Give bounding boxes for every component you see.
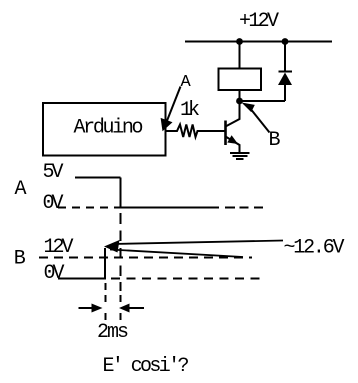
svg-text:0V: 0V (43, 192, 64, 215)
svg-text:+12V: +12V (239, 10, 279, 33)
svg-text:5V: 5V (43, 161, 64, 184)
svg-text:2ms: 2ms (97, 321, 129, 344)
svg-text:B: B (14, 248, 26, 271)
svg-text:B: B (269, 129, 281, 152)
svg-text:~12.6V: ~12.6V (284, 237, 345, 260)
svg-text:A: A (15, 178, 27, 201)
svg-text:0V: 0V (44, 262, 65, 285)
svg-text:Arduino: Arduino (74, 117, 144, 140)
svg-text:12V: 12V (44, 236, 74, 259)
svg-text:1k: 1k (180, 99, 200, 122)
svg-text:E' cosi'?: E' cosi'? (103, 355, 190, 378)
svg-text:A: A (181, 73, 192, 92)
